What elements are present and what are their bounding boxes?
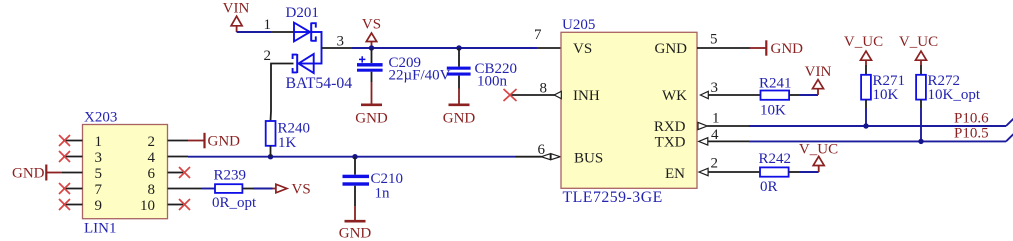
- connector X203 body: [83, 110, 168, 237]
- pin 3 of X203: [63, 156, 83, 158]
- svg-text:V_UC: V_UC: [899, 34, 938, 50]
- resistor R239: [212, 168, 257, 212]
- power port VIN at R241: [805, 64, 832, 95]
- svg-text:R239: R239: [214, 168, 247, 184]
- pin 6 of U205: [515, 156, 542, 158]
- no-ERC cross on pin 3: [59, 151, 70, 162]
- no-ERC cross on pin 9: [59, 199, 70, 210]
- no-ERC cross on pin 8: [504, 89, 517, 101]
- off-sheet entry P10.5: [1006, 134, 1013, 141]
- wire VS rail: [352, 47, 537, 49]
- no-ERC cross on pin 10: [179, 199, 190, 210]
- svg-text:1: 1: [264, 17, 272, 33]
- junction R271 / P10.6: [863, 123, 868, 128]
- svg-text:8: 8: [540, 81, 548, 97]
- resistor R271: [861, 65, 905, 108]
- resistor R242: [759, 151, 792, 195]
- pin 2 of U205 EN: [699, 168, 708, 175]
- svg-text:100n: 100n: [477, 74, 508, 90]
- svg-text:GND: GND: [208, 134, 241, 150]
- pin 3 of D201: [322, 47, 353, 49]
- svg-text:7: 7: [534, 27, 542, 43]
- power port V_UC at R271: [844, 34, 883, 65]
- svg-text:TXD: TXD: [655, 135, 686, 151]
- power port VS at R239: [273, 182, 311, 198]
- wire TXD net P10.5: [749, 140, 1006, 142]
- svg-text:3: 3: [337, 34, 345, 50]
- pin 2 of X203: [168, 140, 188, 142]
- pin 9 of X203: [63, 204, 83, 206]
- power port GND under C209: [355, 82, 388, 126]
- svg-text:GND: GND: [655, 41, 688, 57]
- svg-text:GND: GND: [443, 110, 476, 126]
- svg-text:GND: GND: [771, 41, 804, 57]
- svg-text:1K: 1K: [278, 135, 297, 151]
- capacitor CB220: [447, 48, 517, 90]
- svg-text:6: 6: [148, 166, 156, 182]
- junction VS rail / CB220: [456, 45, 461, 50]
- svg-text:1: 1: [95, 134, 103, 150]
- svg-text:4: 4: [711, 127, 719, 143]
- svg-text:9: 9: [95, 198, 103, 214]
- svg-text:RXD: RXD: [654, 119, 686, 135]
- pin 7 of U205: [537, 47, 561, 49]
- svg-text:2: 2: [264, 48, 272, 64]
- diode D201 top (schottky): [286, 5, 322, 41]
- pin 1 of U205 RXD: [698, 122, 707, 129]
- no-ERC cross on pin 6: [179, 167, 190, 178]
- svg-text:3: 3: [711, 80, 719, 96]
- power port V_UC at R242: [799, 142, 838, 173]
- no-ERC cross on pin 1: [59, 135, 70, 146]
- wire R271 to RXD: [865, 108, 867, 126]
- junction R272 / P10.5: [918, 139, 923, 144]
- svg-text:5: 5: [95, 166, 103, 182]
- svg-text:2: 2: [711, 156, 719, 172]
- svg-text:10K: 10K: [873, 87, 899, 103]
- junction BUS / R240: [268, 154, 273, 159]
- svg-text:R242: R242: [759, 151, 792, 167]
- off-sheet entry P10.6: [1006, 119, 1013, 126]
- resistor R240: [266, 111, 310, 157]
- power port GND under CB220: [443, 89, 476, 127]
- svg-text:8: 8: [148, 182, 156, 198]
- svg-text:VS: VS: [362, 17, 381, 33]
- svg-text:BAT54-04: BAT54-04: [286, 75, 353, 92]
- pin 3 of U205 WK: [700, 91, 708, 98]
- wire X203 pin4 BUS rail: [188, 156, 515, 158]
- svg-text:LIN1: LIN1: [84, 221, 117, 237]
- pin 5 of X203: [62, 172, 83, 174]
- wire R242 to V_UC port: [789, 171, 800, 173]
- svg-text:WK: WK: [662, 88, 687, 104]
- wire R272 to TXD: [920, 108, 922, 141]
- svg-text:BUS: BUS: [574, 151, 603, 167]
- svg-text:D201: D201: [286, 5, 319, 21]
- svg-text:X203: X203: [84, 110, 117, 126]
- svg-text:INH: INH: [573, 88, 600, 104]
- IC U205 body: [561, 17, 697, 206]
- wire R241 to VIN port: [789, 94, 800, 96]
- pin 5 of U205 GND: [697, 47, 750, 49]
- wire R239 to VS port: [242, 188, 253, 190]
- power port GND at pin 2: [188, 133, 240, 150]
- pin 6 of X203: [168, 172, 183, 174]
- svg-text:0R_opt: 0R_opt: [212, 195, 257, 211]
- svg-text:VS: VS: [573, 41, 592, 57]
- wire RXD net P10.6: [749, 125, 1006, 127]
- power port VS on rail: [362, 17, 381, 49]
- svg-text:10K_opt: 10K_opt: [928, 87, 981, 103]
- power port VIN top-left: [223, 1, 250, 33]
- svg-text:VS: VS: [292, 182, 311, 198]
- svg-text:1: 1: [712, 111, 720, 127]
- pin 8 of X203: [168, 188, 202, 190]
- pin 10 of X203: [168, 204, 183, 206]
- power port GND at pin 5: [12, 165, 62, 182]
- wire VIN to D201 pin 1: [237, 31, 271, 33]
- power port V_UC at R272: [899, 34, 938, 65]
- power port GND at pin 5: [750, 40, 803, 57]
- svg-text:EN: EN: [665, 166, 685, 182]
- pin 1 of D201: [271, 31, 294, 33]
- svg-text:R241: R241: [759, 76, 792, 92]
- pin 4 of X203: [168, 156, 188, 158]
- pin 4 of U205 TXD: [699, 138, 708, 145]
- capacitor C209: [357, 48, 451, 84]
- no-ERC cross on pin 7: [59, 183, 70, 194]
- junction VS rail / C209: [369, 45, 374, 50]
- svg-text:GND: GND: [339, 226, 372, 241]
- svg-text:22µF/40V: 22µF/40V: [389, 68, 451, 84]
- svg-text:3: 3: [95, 150, 103, 166]
- svg-text:4: 4: [148, 150, 156, 166]
- svg-text:5: 5: [710, 32, 718, 48]
- svg-text:2: 2: [148, 134, 156, 150]
- svg-text:TLE7259-3GE: TLE7259-3GE: [563, 189, 663, 206]
- pin 7 of X203: [63, 188, 83, 190]
- I/O arrows on pin 6: [541, 154, 550, 160]
- svg-text:VIN: VIN: [805, 64, 832, 80]
- svg-text:VIN: VIN: [223, 1, 250, 17]
- svg-text:P10.6: P10.6: [954, 110, 989, 126]
- resistor R241: [759, 76, 792, 119]
- capacitor C210: [343, 157, 404, 206]
- svg-text:1n: 1n: [375, 186, 391, 202]
- svg-text:10: 10: [140, 198, 155, 214]
- svg-text:GND: GND: [355, 110, 388, 126]
- svg-text:P10.5: P10.5: [954, 126, 989, 142]
- svg-text:U205: U205: [562, 17, 595, 33]
- svg-text:GND: GND: [12, 166, 45, 182]
- svg-text:7: 7: [95, 182, 103, 198]
- junction BUS / C210: [352, 154, 357, 159]
- resistor R272: [916, 65, 981, 108]
- svg-text:0R: 0R: [760, 179, 778, 195]
- svg-text:V_UC: V_UC: [844, 34, 883, 50]
- diode D201 bottom (schottky): [286, 31, 353, 92]
- pin 1 of X203: [63, 140, 83, 142]
- svg-text:10K: 10K: [760, 103, 786, 119]
- power port GND under C210: [339, 206, 372, 241]
- pin 8 of U205 INH: [511, 94, 555, 96]
